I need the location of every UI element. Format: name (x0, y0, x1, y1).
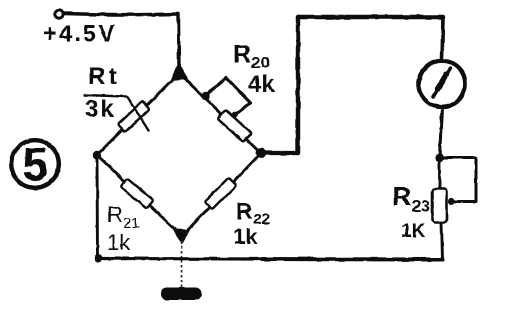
R23 wiper arrow tip (448, 198, 455, 205)
resistor R23 body (433, 189, 447, 223)
node B (bridge left) (93, 151, 101, 159)
wire junction to R23 top (438, 158, 441, 191)
wire right riser up (296, 17, 300, 153)
terminal (+4.5V input) (55, 10, 63, 18)
ground bar (161, 288, 202, 301)
meter needle (434, 68, 451, 97)
Rt leader / strike line (84, 95, 149, 131)
wire bridge edge A-B (top-left) (97, 73, 179, 155)
svg-text:1k: 1k (107, 230, 131, 255)
meter M1 (419, 61, 465, 107)
ground stem (dotted) (181, 260, 183, 288)
wire D to right riser (261, 151, 298, 155)
junction node above R23 (435, 153, 444, 162)
corner node bottom-left (94, 254, 102, 262)
node C (bridge bottom) (173, 229, 191, 245)
wire bottom rail (97, 257, 262, 261)
svg-text:20: 20 (251, 53, 270, 72)
wire vertical down to bridge top (177, 14, 181, 72)
R20 wiper loop with arrow (205, 78, 251, 115)
svg-text:23: 23 (412, 197, 431, 216)
wire down to meter (442, 17, 443, 61)
wire top run to meter (298, 15, 443, 19)
svg-text:5: 5 (22, 138, 48, 191)
wire top from terminal to corner (64, 14, 178, 15)
wire meter to junction (440, 108, 443, 158)
svg-text:4k: 4k (248, 71, 275, 98)
resistor R20 body (217, 110, 251, 142)
wire left rail (B down to bottom rail) (96, 155, 99, 259)
svg-text:1k: 1k (233, 224, 258, 249)
svg-text:R: R (233, 41, 251, 69)
R23 wiper loop with arrow (441, 158, 476, 202)
wire R23 bottom to bottom rail (442, 223, 443, 260)
wire bridge edge B-C (bottom-left) (97, 155, 182, 236)
svg-text:R: R (392, 182, 412, 212)
wire bridge edge C-D (bottom-right) (182, 153, 261, 236)
R20 wiper arrow tip (231, 112, 238, 119)
resistor R22 body (205, 178, 237, 210)
resistor Rt body (118, 101, 150, 132)
figure number 5 (circled) (11, 140, 59, 188)
R20 loop junction (201, 92, 209, 100)
wire C to bottom rail (faint dotted) (181, 241, 183, 258)
node A (bridge top) (170, 62, 188, 81)
svg-text:+4.5V: +4.5V (43, 21, 116, 48)
svg-text:R: R (107, 202, 123, 227)
svg-text:1K: 1K (401, 221, 426, 242)
svg-text:Rt: Rt (88, 63, 120, 90)
node D (bridge right) (256, 148, 267, 159)
resistor R21 body (120, 178, 153, 208)
svg-text:3k: 3k (85, 96, 116, 123)
svg-text:R: R (236, 198, 253, 224)
wire bridge edge A-D (top-right) (179, 73, 261, 153)
